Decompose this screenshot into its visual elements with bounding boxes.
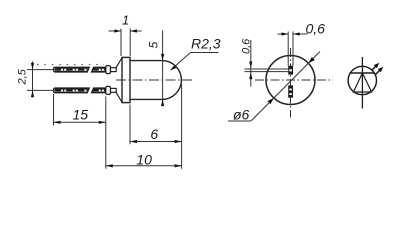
svg-text:R2,3: R2,3 — [191, 36, 221, 52]
dimension 2,5 — [17, 62, 54, 98]
wire faint dotted line above top lead — [37, 64, 104, 66]
LED symbol VD1 — [348, 57, 376, 109]
svg-text:2,5: 2,5 — [17, 68, 29, 85]
node main axis centerline — [116, 79, 193, 81]
node top lead axis — [55, 68, 117, 72]
dimension 10 — [106, 151, 182, 167]
wire top lead segment 2 — [92, 67, 106, 72]
svg-text:0,6: 0,6 — [240, 38, 252, 54]
dimension 15 — [54, 94, 106, 169]
dimension 0,6 top — [278, 21, 326, 66]
node bottom lead standoff — [106, 86, 111, 94]
label ø6 with leader — [228, 52, 320, 123]
node bottom lead axis — [55, 89, 117, 93]
svg-text:15: 15 — [73, 107, 89, 123]
svg-text:10: 10 — [136, 151, 152, 167]
node bottom flare cone — [116, 93, 122, 103]
svg-text:0,6: 0,6 — [306, 21, 326, 37]
node top flare cone — [116, 58, 122, 68]
dimension 1 — [109, 13, 142, 57]
LED D1 front view circle — [266, 56, 315, 105]
LED symbol emission arrow 1 — [371, 63, 379, 71]
node front vertical axis — [290, 48, 292, 118]
svg-text:5: 5 — [147, 41, 161, 48]
svg-text:ø6: ø6 — [233, 107, 250, 123]
svg-text:6: 6 — [150, 126, 158, 142]
svg-text:1: 1 — [122, 13, 129, 28]
node front horizontal axis — [255, 79, 333, 81]
node top lead standoff — [106, 66, 111, 74]
dimension 5 — [147, 31, 165, 107]
LED D1 body and dome — [130, 61, 181, 100]
wire bottom lead segment 1 — [54, 88, 90, 93]
pin lower lead cross-section — [288, 85, 293, 97]
label R2,3 with leader — [170, 36, 221, 71]
wire top lead neck — [111, 68, 117, 72]
wire top lead segment 1 — [54, 67, 90, 72]
dimension 6 — [130, 84, 182, 169]
pin upper lead cross-section — [288, 66, 293, 75]
dimension 0,6 left — [240, 38, 288, 87]
wire bottom lead segment 2 — [92, 88, 106, 93]
wire bottom lead neck — [111, 88, 117, 92]
LED symbol emission arrow 2 — [375, 67, 383, 75]
LED D1 flange — [122, 57, 130, 102]
